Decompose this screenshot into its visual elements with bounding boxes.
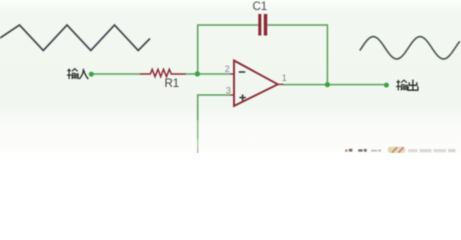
svg-text:3: 3 (226, 86, 231, 96)
svg-text:C1: C1 (252, 1, 267, 13)
svg-text:R1: R1 (164, 78, 179, 90)
svg-text:1: 1 (282, 73, 287, 83)
svg-text:2: 2 (225, 64, 230, 74)
